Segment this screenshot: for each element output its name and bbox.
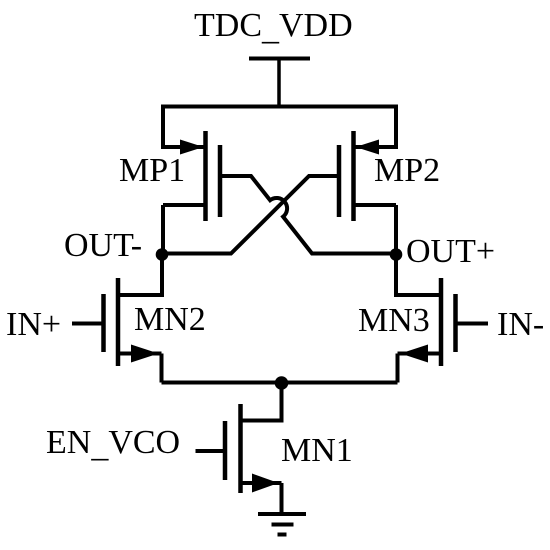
transistor MN1 xyxy=(225,404,282,493)
wire MP1 gate cross-coupled to OUT+ (with hop) xyxy=(220,176,396,254)
svg-text:MN3: MN3 xyxy=(358,302,430,339)
svg-text:MP2: MP2 xyxy=(374,152,440,189)
wire MN1 source to ground xyxy=(280,483,284,514)
transistor MP1 xyxy=(163,131,220,221)
svg-text:TDC_VDD: TDC_VDD xyxy=(194,7,353,47)
wire tail rail xyxy=(162,381,398,385)
wire MP1 drain to OUT- node xyxy=(161,205,165,255)
wire MP2 gate cross-coupled to OUT- xyxy=(162,176,339,254)
wire MP1 source xyxy=(163,105,204,148)
svg-text:IN-: IN- xyxy=(497,306,544,343)
wire MP2 drain to OUT+ node xyxy=(394,205,398,255)
wire IN- gate lead xyxy=(456,322,489,326)
node OUT- xyxy=(156,248,169,261)
transistor MP2 xyxy=(339,131,396,221)
node tail xyxy=(275,376,289,390)
ground xyxy=(258,514,306,535)
svg-text:OUT+: OUT+ xyxy=(406,233,495,270)
power VDD symbol xyxy=(249,59,310,107)
svg-text:MN1: MN1 xyxy=(281,432,353,469)
transistor MN2 xyxy=(104,278,162,366)
wire top supply rail xyxy=(161,105,398,109)
wire MN3 source to tail rail xyxy=(396,354,400,383)
svg-text:OUT-: OUT- xyxy=(64,227,142,264)
wire OUT- to MN2 drain xyxy=(118,255,162,296)
svg-text:EN_VCO: EN_VCO xyxy=(46,424,180,464)
wire IN+ gate lead xyxy=(72,322,104,326)
wire MP2 source xyxy=(356,105,397,148)
svg-text:IN+: IN+ xyxy=(6,306,61,343)
transistor MN3 xyxy=(398,278,456,366)
wire MN2 source to tail rail xyxy=(160,354,164,383)
svg-text:MN2: MN2 xyxy=(134,301,206,338)
wire OUT+ to MN3 drain xyxy=(396,255,441,296)
node OUT+ xyxy=(390,248,403,261)
wire tail node to MN1 drain xyxy=(241,383,282,421)
wire EN_VCO gate lead xyxy=(196,449,226,453)
svg-text:MP1: MP1 xyxy=(119,152,185,189)
